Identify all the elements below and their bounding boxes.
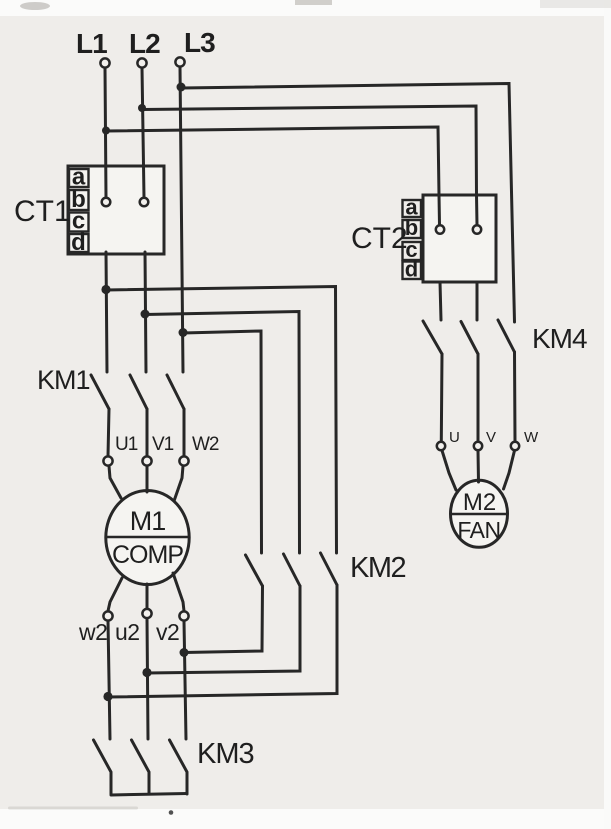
svg-text:w2: w2 [78,619,107,645]
svg-text:U: U [449,429,460,446]
svg-text:V1: V1 [152,434,174,455]
svg-text:CT1: CT1 [14,195,71,228]
svg-text:KM2: KM2 [350,552,406,584]
svg-text:M2: M2 [463,489,496,516]
svg-text:d: d [405,257,418,282]
svg-text:U1: U1 [115,434,138,455]
svg-text:u2: u2 [115,619,140,645]
svg-text:KM4: KM4 [532,323,587,354]
svg-text:W2: W2 [192,434,219,455]
svg-text:W: W [524,429,539,446]
svg-text:KM1: KM1 [37,365,90,395]
svg-text:M1: M1 [130,506,166,536]
svg-text:V: V [486,429,496,446]
svg-text:L2: L2 [129,28,160,59]
svg-text:COMP: COMP [112,541,183,569]
svg-text:FAN: FAN [457,517,500,543]
svg-text:KM3: KM3 [197,738,254,770]
svg-text:d: d [71,229,86,256]
svg-text:L1: L1 [76,28,107,59]
svg-text:CT2: CT2 [351,222,408,255]
svg-text:L3: L3 [184,27,215,58]
svg-text:v2: v2 [156,619,179,645]
